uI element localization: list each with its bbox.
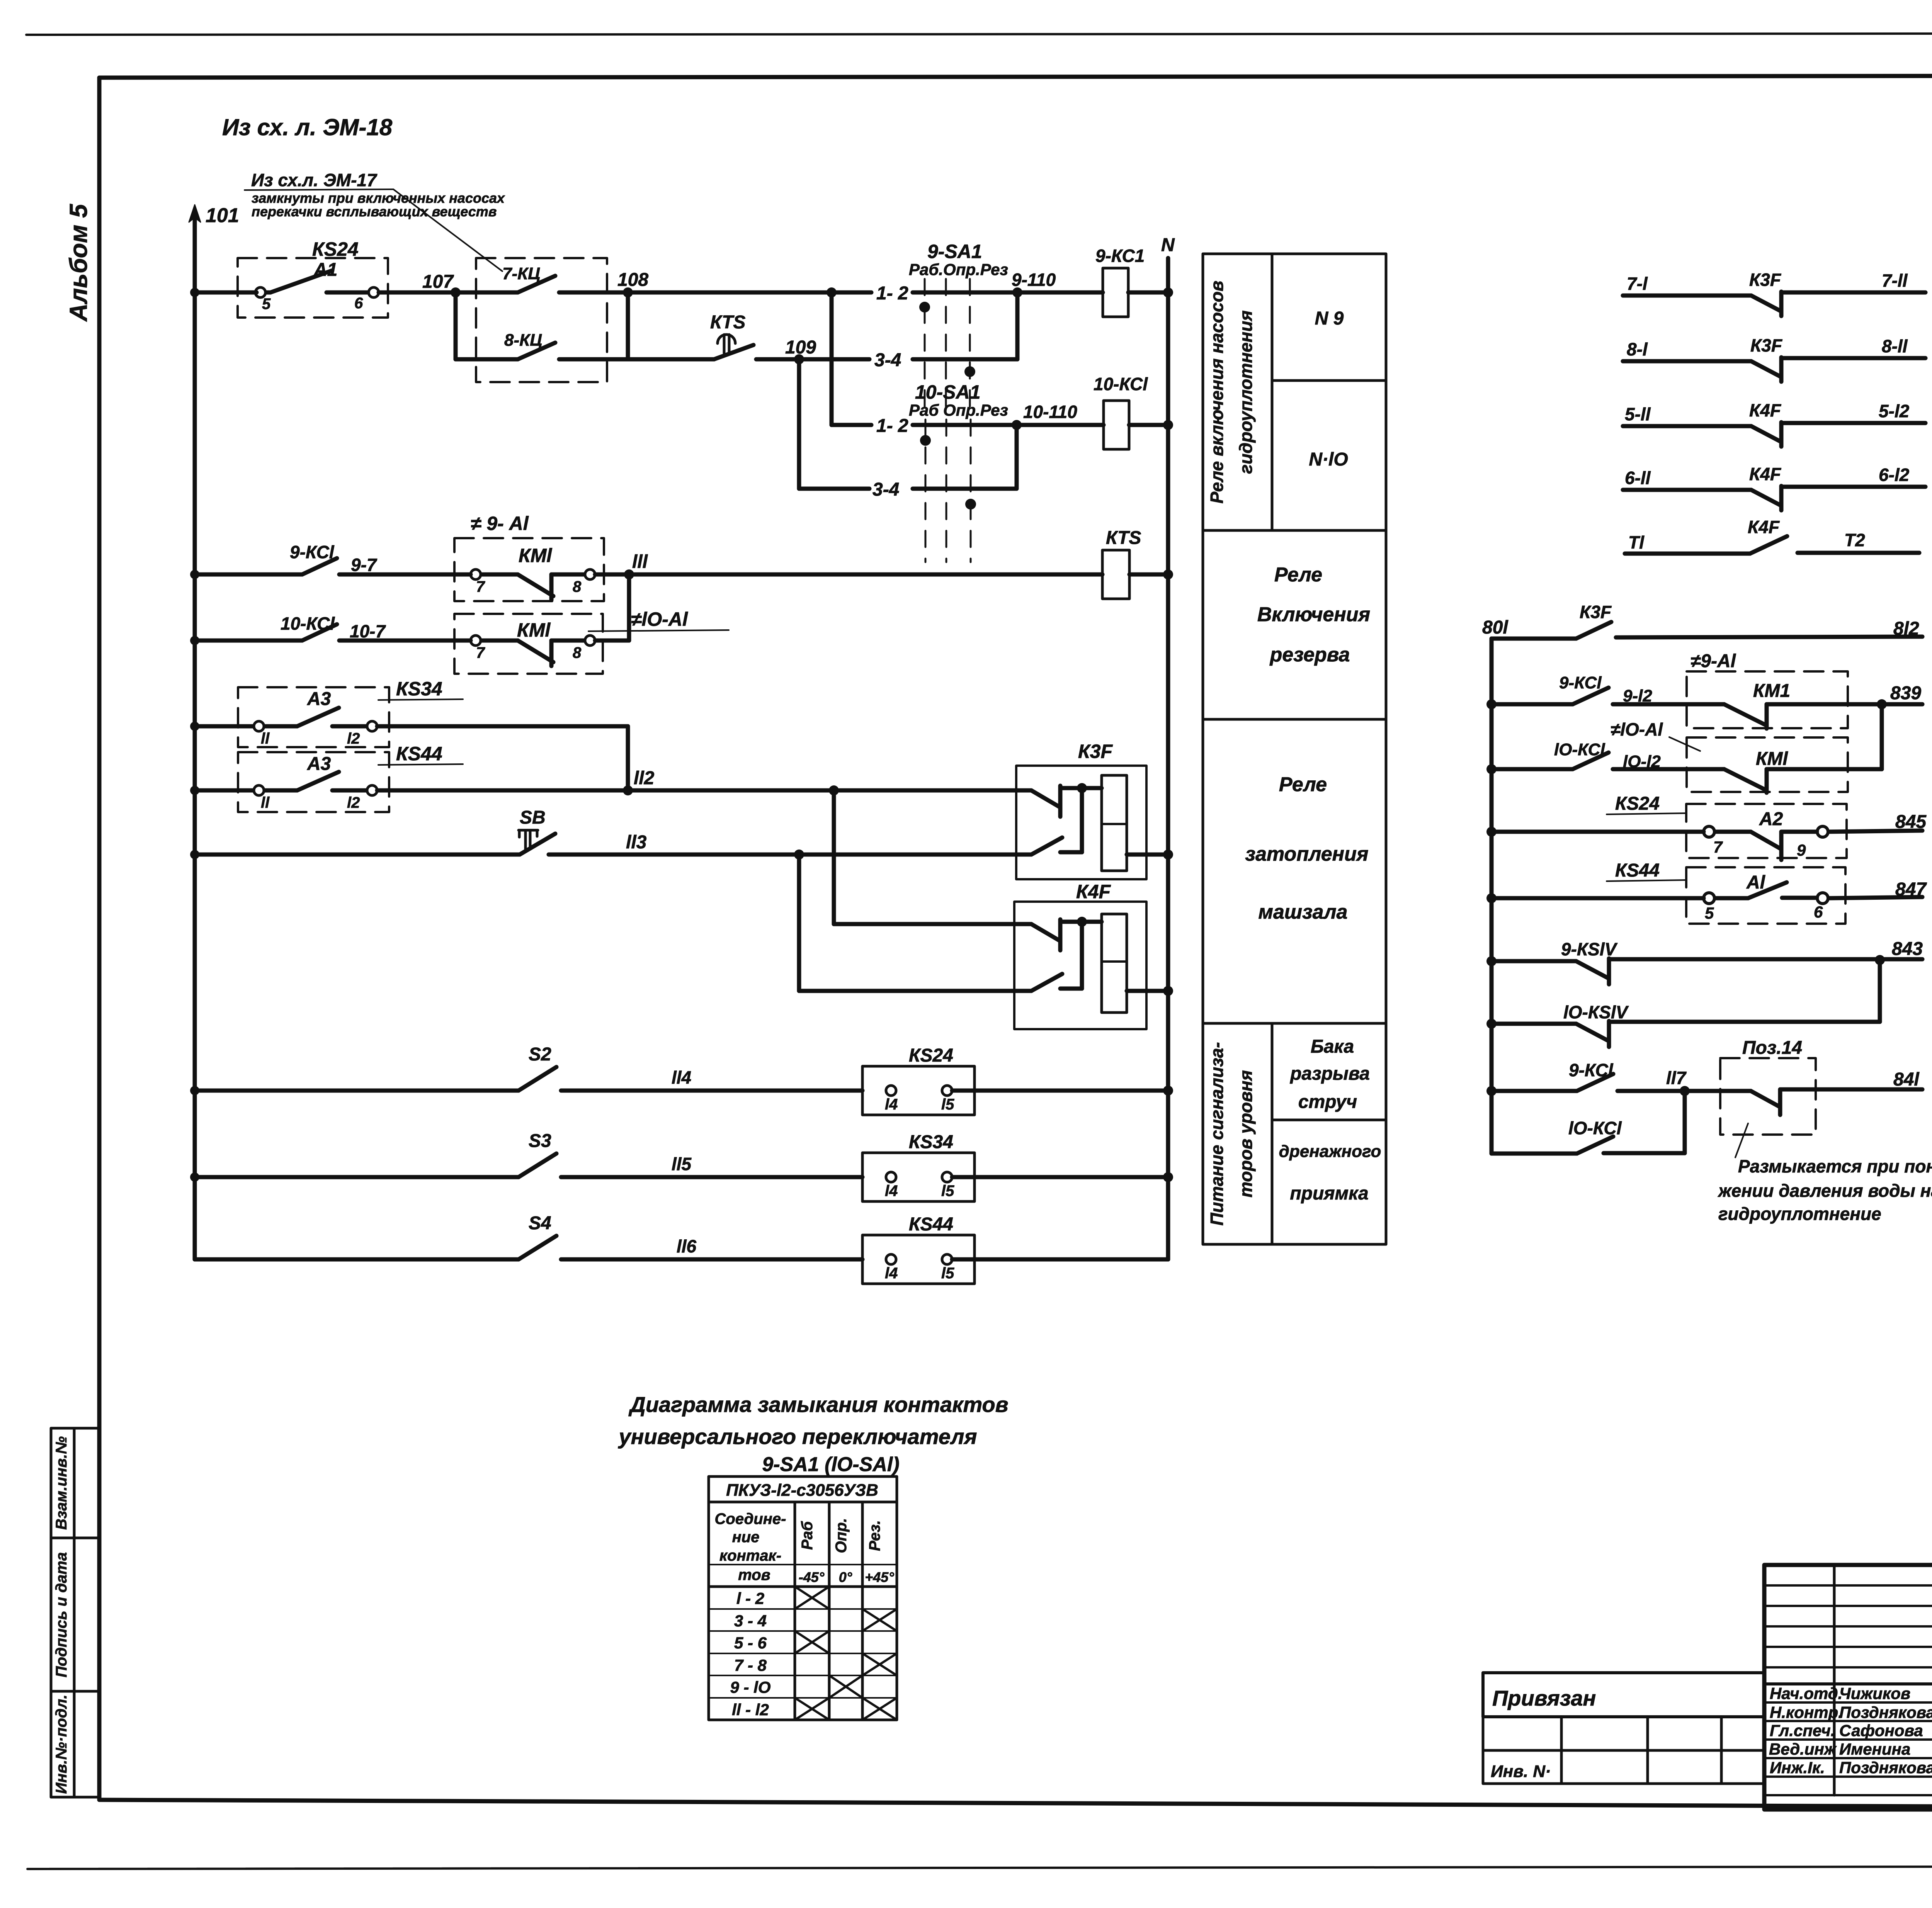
svg-text:S3: S3 (529, 1131, 551, 1151)
svg-text:7 - 8: 7 - 8 (734, 1656, 767, 1674)
svg-text:6-l2: 6-l2 (1879, 465, 1910, 485)
svg-text:А2: А2 (1759, 809, 1783, 829)
bus 801 (1490, 639, 1494, 1154)
svg-text:ll: ll (261, 730, 270, 747)
svg-text:8: 8 (573, 578, 582, 595)
svg-text:9-l2: 9-l2 (1623, 686, 1652, 705)
K4F upper NC contact (1031, 919, 1102, 950)
svg-text:торов уровня: торов уровня (1236, 1070, 1256, 1198)
svg-text:перекачки всплывающих веществ: перекачки всплывающих веществ (252, 204, 497, 219)
svg-text:≠9-Аl: ≠9-Аl (1690, 651, 1736, 671)
svg-text:КМl: КМl (519, 545, 552, 566)
svg-text:Включения: Включения (1257, 603, 1370, 626)
svg-text:ние: ние (732, 1529, 760, 1546)
paper top edge line (26, 33, 1932, 35)
svg-text:9-КСl: 9-КСl (1559, 673, 1602, 692)
K3F coil output to bus (1127, 853, 1168, 857)
vertical to K4F upper row (832, 790, 836, 924)
rung8: S2 / KS24 (190, 1086, 199, 1095)
svg-text:l5: l5 (941, 1265, 954, 1282)
dashed box 10-A1 (right) (1687, 737, 1848, 792)
svg-text:Опр.: Опр. (833, 1518, 850, 1553)
K4F lower NO contact (1031, 922, 1082, 991)
contact KTS (time delay) (628, 345, 799, 359)
svg-text:Поз.14: Поз.14 (1742, 1038, 1802, 1058)
contact A1 (5-6) (255, 270, 379, 297)
svg-text:1- 2: 1- 2 (876, 283, 908, 304)
svg-text:гидроуплотнения: гидроуплотнения (1236, 310, 1256, 474)
svg-text:ll3: ll3 (626, 832, 647, 853)
svg-text:машзала: машзала (1259, 901, 1348, 923)
svg-text:108: 108 (617, 270, 648, 290)
contact 7-KU (456, 276, 628, 292)
svg-text:l5: l5 (941, 1096, 954, 1113)
svg-text:7-l: 7-l (1627, 274, 1648, 294)
svg-text:Питание сигнализа-: Питание сигнализа- (1207, 1042, 1227, 1225)
KM1 NC contact (right, rung 10-12) (1724, 769, 1882, 793)
svg-text:6: 6 (354, 295, 363, 312)
K3F upper NC contact (1031, 786, 1102, 817)
terminal box KS34 (862, 1153, 975, 1201)
7-KU / 8-KU dashed box (476, 258, 607, 382)
svg-text:7: 7 (1713, 838, 1723, 856)
svg-text:9-КСl: 9-КСl (290, 542, 335, 562)
svg-text:К3F: К3F (1580, 602, 1612, 622)
svg-text:Взам.инв.№: Взам.инв.№ (53, 1436, 70, 1530)
rung1 wire 101 to KS24 (195, 291, 257, 295)
svg-text:6: 6 (1814, 903, 1823, 921)
svg-text:8-ll: 8-ll (1882, 336, 1908, 356)
svg-text:107: 107 (422, 272, 454, 292)
vertical from rung1 to 10-SA1 row1 (830, 292, 834, 425)
wire to node 107 (379, 291, 456, 295)
drawing frame bottom (99, 1800, 1932, 1809)
svg-text:≠lO-Аl: ≠lO-Аl (631, 608, 688, 630)
svg-text:Т2: Т2 (1844, 530, 1865, 550)
left grid horizontals (1764, 1585, 1932, 1795)
svg-text:Чижиков: Чижиков (1839, 1684, 1910, 1702)
X marks (795, 1587, 897, 1720)
svg-text:Аl: Аl (1746, 872, 1766, 893)
selector 9-SA1 dashed lines (925, 279, 970, 413)
svg-text:КМl: КМl (1756, 749, 1788, 769)
svg-text:5 - 6: 5 - 6 (734, 1634, 767, 1652)
svg-text:9-КС1: 9-КС1 (1095, 246, 1145, 266)
node 108 (623, 287, 633, 297)
vertical to K4F lower row (797, 855, 801, 991)
svg-text:Размыкается при пони-: Размыкается при пони- (1738, 1156, 1932, 1176)
svg-text:КS44: КS44 (396, 743, 442, 765)
svg-text:затопления: затопления (1245, 843, 1369, 865)
svg-text:К4F: К4F (1749, 464, 1782, 484)
rung9: S3 / KS34 (190, 1172, 199, 1182)
svg-text:10-7: 10-7 (350, 621, 386, 641)
svg-text:lO-l2: lO-l2 (1623, 752, 1661, 771)
svg-text:Инв. N·: Инв. N· (1491, 1762, 1551, 1781)
svg-text:Реле: Реле (1274, 564, 1322, 586)
coil 9-KC1 (1103, 268, 1128, 317)
svg-text:3-4: 3-4 (874, 350, 901, 370)
svg-text:9-110: 9-110 (1012, 270, 1056, 290)
KM1 NC contact (right, rung 839) (1724, 704, 1882, 729)
svg-text:7-КЦ: 7-КЦ (502, 264, 540, 283)
svg-text:84l: 84l (1893, 1069, 1920, 1090)
svg-text:Раб: Раб (799, 1521, 816, 1550)
svg-text:lll: lll (632, 552, 648, 572)
svg-text:10-SА1: 10-SА1 (915, 381, 981, 403)
svg-text:5-l2: 5-l2 (1879, 401, 1910, 421)
svg-text:А1: А1 (313, 260, 337, 280)
svg-text:ll5: ll5 (672, 1154, 692, 1174)
svg-text:Привязан: Привязан (1492, 1686, 1596, 1710)
node 112 (623, 785, 633, 795)
svg-text:КМ1: КМ1 (1753, 681, 1790, 701)
svg-text:lO-КСl: lO-КСl (1554, 740, 1605, 759)
svg-text:l4: l4 (885, 1096, 898, 1113)
svg-text:А3: А3 (307, 754, 331, 774)
svg-text:5: 5 (1705, 904, 1714, 922)
svg-text:7: 7 (476, 578, 485, 595)
rung 801-812 K3F contact (1492, 622, 1922, 639)
svg-text:5-ll: 5-ll (1625, 404, 1651, 424)
svg-text:-45°: -45° (799, 1569, 825, 1585)
svg-text:КS24: КS24 (909, 1045, 953, 1066)
svg-text:КТS: КТS (710, 312, 745, 333)
svg-text:Именина: Именина (1839, 1740, 1910, 1758)
svg-text:КМl: КМl (517, 619, 551, 641)
svg-text:Диаграмма замыкания контактов: Диаграмма замыкания контактов (628, 1392, 1008, 1417)
svg-text:10-110: 10-110 (1023, 402, 1077, 422)
svg-text:Раб Опр.Рез: Раб Опр.Рез (909, 401, 1008, 419)
wire from KM1#2 up to node 111 (595, 639, 629, 643)
svg-text:А3: А3 (307, 689, 331, 709)
svg-text:l - 2: l - 2 (736, 1589, 764, 1607)
svg-text:струч: струч (1298, 1092, 1357, 1112)
svg-text:Реле включения насосов: Реле включения насосов (1207, 281, 1227, 504)
dashed box 9-A1 (right) (1687, 671, 1848, 728)
contact row T1/T2 K4F (NO) (1625, 536, 1919, 554)
svg-text:8-l: 8-l (1627, 339, 1648, 359)
middle description column box (1203, 254, 1386, 1244)
svg-text:Н.контр.: Н.контр. (1770, 1703, 1843, 1721)
svg-text:разрыва: разрыва (1289, 1064, 1370, 1084)
svg-text:КS24: КS24 (312, 238, 359, 260)
svg-text:резерва: резерва (1269, 644, 1350, 666)
wire 109 to vertical (799, 357, 832, 362)
svg-text:lO-КСl: lO-КСl (1568, 1118, 1622, 1138)
svg-text:Инж.Iк.: Инж.Iк. (1770, 1758, 1825, 1777)
svg-text:универсального переключателя: универсального переключателя (617, 1424, 977, 1449)
svg-text:l4: l4 (885, 1183, 898, 1200)
svg-text:l2: l2 (347, 730, 360, 747)
svg-text:845: 845 (1895, 812, 1927, 832)
rung 841: 9-KC1 and Poz.14 (1486, 1086, 1497, 1096)
svg-text:жении давления воды на: жении давления воды на (1717, 1181, 1932, 1201)
svg-text:ll2: ll2 (634, 768, 655, 788)
rung7: SB push button (190, 850, 199, 859)
left margin stamp boxes (51, 1428, 99, 1797)
svg-text:Бака: Бака (1311, 1036, 1354, 1057)
svg-text:9-КSlV: 9-КSlV (1561, 939, 1618, 959)
svg-text:3-4: 3-4 (872, 479, 899, 500)
svg-text:КS44: КS44 (909, 1214, 953, 1235)
rung 10-KSIV NC (1486, 1019, 1497, 1029)
svg-text:Инв.№·подл.: Инв.№·подл. (53, 1695, 70, 1794)
svg-text:КS44: КS44 (1615, 860, 1660, 881)
K4F coil (1102, 914, 1127, 1013)
node 111 (595, 573, 629, 577)
svg-text:7: 7 (476, 644, 485, 661)
drawing frame left (97, 78, 102, 1800)
svg-text:≠lO-Аl: ≠lO-Аl (1611, 719, 1663, 739)
svg-text:Соедине-: Соедине- (715, 1510, 786, 1527)
main title block outer (1764, 1565, 1932, 1809)
svg-text:тов: тов (738, 1566, 770, 1583)
svg-text:Раб.Опр.Рез: Раб.Опр.Рез (909, 260, 1008, 279)
terminal box KS44 (862, 1235, 975, 1284)
bus 101 (189, 205, 201, 1259)
svg-text:3 - 4: 3 - 4 (734, 1612, 767, 1630)
wire 111 to KTS coil (629, 573, 1102, 577)
rung 845: KS24 / A2 NC contact (1486, 827, 1497, 837)
svg-text:Позднякова: Позднякова (1839, 1703, 1932, 1721)
svg-text:N: N (1161, 235, 1175, 255)
svg-text:КS24: КS24 (1615, 793, 1660, 814)
svg-text:КS34: КS34 (909, 1132, 953, 1152)
KM1 #2 dashed box (10-A1) (454, 614, 603, 674)
left grid verticals (1834, 1565, 1932, 1809)
svg-text:N·lO: N·lO (1309, 449, 1348, 470)
branch 107 down (454, 292, 458, 359)
9-SA1 row 1-2 label and wires (628, 291, 871, 295)
svg-text:Тl: Тl (1628, 532, 1645, 552)
svg-text:дренажного: дренажного (1279, 1142, 1381, 1161)
10-SA1 row 3-4 (797, 359, 801, 489)
rung10: S4 / KS44 (195, 1236, 862, 1259)
svg-text:Альбом 5: Альбом 5 (65, 204, 92, 322)
svg-text:9-SА1 (lO-SАl): 9-SА1 (lO-SАl) (762, 1453, 899, 1476)
small grid below Привязан (1483, 1717, 1764, 1784)
svg-text:Вед.инж: Вед.инж (1769, 1740, 1837, 1758)
svg-text:N 9: N 9 (1315, 308, 1344, 329)
svg-text:приямка: приямка (1290, 1183, 1368, 1204)
svg-text:контак-: контак- (719, 1547, 781, 1564)
note: Из сх.л. ЭМ-17 with underline and leader (245, 170, 505, 271)
svg-text:10-КСl: 10-КСl (1094, 374, 1148, 394)
svg-text:10-КСl: 10-КСl (281, 613, 335, 634)
svg-text:КТS: КТS (1106, 528, 1141, 548)
svg-text:ПКУЗ-l2-с3056УЗВ: ПКУЗ-l2-с3056УЗВ (726, 1481, 878, 1500)
node 109 (794, 354, 804, 364)
svg-text:К4F: К4F (1748, 517, 1780, 537)
svg-text:К4F: К4F (1749, 400, 1782, 420)
wire 108 down to 8-KU row (626, 292, 630, 359)
contact diagram table (709, 1476, 897, 1720)
svg-text:Позднякова: Позднякова (1839, 1758, 1932, 1777)
K3F coil (1102, 775, 1127, 871)
contact row 7-1/7-11 K3F (1623, 292, 1925, 316)
rung 839: 9-KC1 and KM1 NC (1486, 699, 1497, 709)
svg-text:9-7: 9-7 (351, 555, 378, 575)
rung5: A3 (KS34) (190, 722, 199, 731)
svg-text:SВ: SВ (520, 807, 546, 828)
svg-text:6-ll: 6-ll (1625, 468, 1651, 488)
KM1 #2 NC contact (471, 635, 595, 666)
svg-text:Подпись и дата: Подпись и дата (53, 1552, 70, 1677)
svg-text:80l: 80l (1482, 617, 1509, 638)
svg-text:ll: ll (261, 794, 270, 811)
KS24 dashed box (238, 258, 388, 318)
KM1 dashed box (9-A1) (454, 538, 604, 601)
svg-text:0°: 0° (839, 1569, 852, 1585)
paper bottom edge line (27, 1866, 1932, 1869)
K3F lower NO contact (1031, 788, 1082, 855)
svg-text:8l2: 8l2 (1893, 618, 1919, 639)
bus N (1166, 258, 1170, 1259)
svg-text:+45°: +45° (865, 1569, 894, 1585)
leader to note (1735, 1123, 1748, 1157)
svg-text:Из сх. л. ЭМ-18: Из сх. л. ЭМ-18 (222, 114, 393, 140)
svg-text:ll - l2: ll - l2 (732, 1701, 769, 1719)
KTS umbrella symbol (718, 335, 735, 353)
svg-text:S2: S2 (529, 1044, 551, 1065)
svg-text:l4: l4 (885, 1265, 898, 1282)
rung3: 9-KC1 contact to KM1 to KTS coil (190, 570, 199, 579)
svg-text:К3F: К3F (1078, 741, 1113, 762)
svg-text:9-КСl: 9-КСl (1569, 1060, 1614, 1080)
svg-text:9-SА1: 9-SА1 (927, 241, 982, 262)
rung6: A3 (KS44) to K3F (190, 786, 199, 795)
svg-text:l5: l5 (941, 1183, 954, 1200)
10-SA1 row 1-2 (832, 423, 871, 427)
rung 10-12: 10-KC1 and KM1 NC (1486, 764, 1497, 774)
svg-text:Реле: Реле (1279, 773, 1327, 796)
svg-text:К4F: К4F (1076, 881, 1111, 902)
svg-text:5: 5 (262, 296, 271, 313)
contact 8-KU (456, 343, 628, 359)
svg-text:Сафонова: Сафонова (1839, 1721, 1923, 1740)
9-SA1 row 3-4 (832, 357, 869, 362)
svg-text:843: 843 (1892, 939, 1923, 959)
svg-text:ll4: ll4 (672, 1067, 691, 1087)
svg-text:≠ 9- Аl: ≠ 9- Аl (471, 513, 529, 534)
rung 843: 9-KSIV NC (1486, 956, 1497, 966)
svg-text:8-КЦ: 8-КЦ (504, 331, 542, 350)
relay K4F box (1014, 902, 1146, 1029)
coil 10-KC1 (1104, 401, 1129, 449)
svg-text:гидроуплотнение: гидроуплотнение (1718, 1204, 1881, 1224)
title block: Привязан box (1483, 1673, 1764, 1717)
svg-text:847: 847 (1895, 879, 1927, 900)
svg-text:Гл.спеч.: Гл.спеч. (1770, 1721, 1835, 1740)
Poz.14 NC contact (1751, 1089, 1922, 1115)
svg-text:Из сх.л. ЭМ-17: Из сх.л. ЭМ-17 (251, 170, 378, 190)
KM1 NC contact (7-8) (471, 569, 595, 600)
contact row 8-1/8-11 K3F (1623, 357, 1925, 382)
svg-text:101: 101 (206, 204, 239, 227)
svg-text:ll7: ll7 (1666, 1068, 1687, 1088)
svg-text:ll6: ll6 (677, 1236, 697, 1256)
svg-text:839: 839 (1890, 683, 1921, 703)
svg-text:9 - lO: 9 - lO (730, 1678, 770, 1696)
coil KTS (1102, 550, 1129, 599)
rung4: 10-KC1 contact to KM1 #2 (190, 636, 199, 645)
contact row 5-11/5-12 K4F (1623, 422, 1925, 447)
SB actuator symbol (519, 830, 538, 850)
rung 847: KS44 / A1 NO contact (1486, 893, 1497, 903)
contact row 6-11/6-12 K4F (1623, 486, 1925, 510)
dashed box Poz.14 (1720, 1058, 1816, 1135)
relay K3F box (1016, 766, 1146, 879)
svg-text:1- 2: 1- 2 (876, 416, 908, 436)
K4F coil output to bus (1127, 989, 1168, 993)
svg-text:lO-КSlV: lO-КSlV (1563, 1002, 1629, 1022)
svg-text:Рез.: Рез. (866, 1520, 883, 1551)
drawing frame top (99, 75, 1932, 78)
rung 10-KC1 (bottom) (1492, 1091, 1685, 1154)
svg-text:К3F: К3F (1750, 335, 1783, 355)
svg-text:9: 9 (1797, 841, 1806, 859)
svg-text:109: 109 (785, 337, 816, 358)
svg-text:7-ll: 7-ll (1882, 270, 1908, 291)
selector 10-SA1 dashed lines (925, 420, 971, 562)
svg-text:К3F: К3F (1749, 270, 1782, 290)
svg-text:КS34: КS34 (396, 678, 442, 700)
svg-text:l2: l2 (347, 794, 360, 811)
node 107 (451, 287, 461, 297)
svg-text:S4: S4 (529, 1213, 551, 1233)
svg-text:8: 8 (573, 644, 582, 661)
terminal box KS24 (862, 1066, 975, 1115)
corner up to 9-110 node (1015, 292, 1020, 359)
svg-text:Нач.отд.: Нач.отд. (1770, 1684, 1842, 1702)
